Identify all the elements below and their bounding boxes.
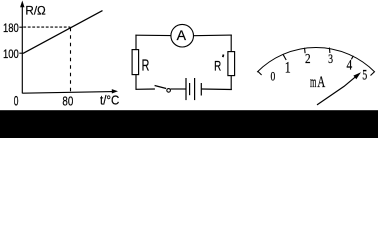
battery plate short 1 — [189, 83, 191, 95]
graph y-axis — [21, 3, 23, 94]
wire battery to right corner — [202, 88, 232, 91]
y tick 100 — [19, 52, 23, 54]
svg-text:3: 3 — [328, 51, 333, 66]
meter scale arc — [257, 47, 375, 72]
meter tick 2 — [304, 48, 307, 53]
switch contact circle — [167, 89, 171, 93]
black bottom bar — [0, 110, 378, 138]
graph y-axis arrowhead — [20, 1, 24, 8]
dashed vertical at 80 — [70, 28, 72, 93]
wire switch to battery — [170, 88, 185, 90]
svg-text:m: m — [310, 74, 317, 91]
battery plate long 1 — [185, 78, 187, 100]
left wire lower — [135, 75, 137, 90]
battery plate long 2 — [194, 78, 196, 100]
dashed horizontal at 180 — [23, 26, 70, 28]
left wire upper — [135, 35, 137, 50]
svg-text:5: 5 — [362, 68, 367, 84]
svg-text:t/°C: t/°C — [100, 92, 119, 107]
svg-text:0: 0 — [271, 68, 276, 83]
switch S blade — [155, 86, 167, 89]
svg-text:A: A — [177, 28, 186, 43]
meter tick 5 — [371, 72, 375, 76]
svg-text:R: R — [214, 57, 221, 73]
right wire upper — [230, 35, 232, 52]
meter tick 0 — [258, 71, 262, 75]
svg-text:R/Ω: R/Ω — [25, 3, 45, 17]
y tick 180 — [19, 26, 23, 28]
svg-text:A: A — [317, 74, 326, 91]
svg-text:180: 180 — [3, 22, 19, 35]
circuit top wire right — [194, 34, 232, 37]
svg-text:1: 1 — [285, 57, 291, 76]
svg-text:2: 2 — [305, 51, 311, 66]
svg-text:0: 0 — [14, 93, 19, 108]
R-t line — [23, 11, 103, 54]
resistor R box — [132, 50, 139, 75]
resistor R' box — [228, 52, 235, 76]
graph x-axis arrowhead — [112, 89, 118, 93]
bottom wire to switch — [136, 88, 155, 90]
meter tick 1 — [283, 55, 286, 60]
R' apostrophe — [222, 55, 225, 58]
circuit top wire left — [135, 34, 171, 36]
ammeter U1 circle — [171, 24, 194, 47]
battery plate short 2 — [200, 83, 202, 96]
needle shaft — [317, 76, 357, 105]
svg-text:4: 4 — [346, 57, 352, 73]
svg-text:80: 80 — [62, 94, 73, 108]
meter tick 3 — [328, 48, 331, 53]
svg-text:100: 100 — [3, 48, 19, 61]
meter tick 4 — [351, 56, 353, 60]
needle arrowhead — [353, 72, 361, 79]
right wire lower — [230, 76, 232, 90]
graph x-axis — [22, 92, 113, 94]
svg-text:R: R — [142, 58, 150, 75]
